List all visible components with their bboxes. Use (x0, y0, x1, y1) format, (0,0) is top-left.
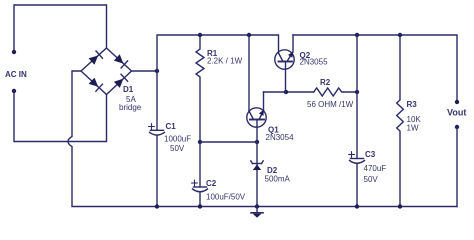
svg-text:C1: C1 (166, 122, 177, 131)
label R1 2.2K/1W (207, 49, 243, 66)
wire: bridge negative (left vertex) to bottom rail, with hop over AC wire (68, 71, 457, 207)
svg-text:bridge: bridge (119, 103, 142, 112)
label C1 1000uF 50V (164, 122, 191, 153)
diode D1a (left-top edge) (89, 56, 99, 65)
resistor R3 (397, 35, 404, 207)
diode D1b (top-right edge) (114, 54, 124, 63)
wire: AC IN bottom lead to bridge bottom vertex (14, 91, 107, 142)
svg-text:2N3055: 2N3055 (300, 58, 329, 67)
node: R3 to ground rail (398, 204, 402, 208)
svg-text:100uF/50V: 100uF/50V (206, 193, 246, 202)
label C2 100uF/50V (206, 179, 246, 202)
svg-text:R3: R3 (407, 100, 418, 109)
wire: Q1 emitter to Q2 base and R2 (264, 91, 314, 93)
svg-text:Vout: Vout (447, 108, 466, 118)
wire: regulated output rail (right segment) from Q2 emitter to Vout corner (293, 35, 457, 102)
wire: Vout bottom lead to ground rail (456, 127, 458, 207)
capacitor C3 (349, 152, 365, 207)
label R3 10K 1W (407, 100, 422, 133)
label R2 56 OHM /1W (307, 78, 354, 109)
label Q2 2N3055 (300, 51, 329, 67)
svg-text:50V: 50V (170, 144, 185, 153)
node: C2 to ground rail (198, 204, 202, 208)
capacitor C2 (192, 142, 208, 207)
node: AC IN bottom terminal (12, 89, 16, 93)
node: Q2 base junction (284, 90, 288, 94)
transistor Q1 (2N3054) (247, 35, 266, 142)
label C3 470uF 50V (364, 150, 387, 184)
node: Vout bottom terminal (455, 125, 459, 129)
resistor R2 (314, 88, 357, 96)
node: R1 / C2 / base wire junction (198, 140, 202, 144)
node: AC IN top terminal (12, 50, 16, 54)
svg-text:AC IN: AC IN (5, 70, 27, 79)
svg-text:2.2K / 1W: 2.2K / 1W (207, 57, 243, 66)
svg-text:C3: C3 (365, 150, 376, 159)
label Q1 2N3054 (266, 126, 295, 143)
node: rail / R1 junction (198, 33, 202, 37)
wire: bridge positive (right vertex) to C1 line (132, 70, 158, 72)
node: Vout top terminal (455, 100, 459, 104)
svg-text:56 OHM /1W: 56 OHM /1W (307, 100, 354, 109)
wire: R1 bottom node to Q1 base / D2 node (200, 141, 257, 143)
wire: C3 top lead from rail through R2 node (356, 35, 358, 159)
zener diode D2 (251, 142, 263, 207)
transistor Q2 (2N3055) (275, 35, 294, 92)
wire: unregulated + rail (left segment) with C1 top lead and Q2 collector lead (157, 35, 279, 130)
svg-text:50V: 50V (364, 175, 379, 184)
bridge rectifier D1 (81, 48, 132, 95)
node: rail / C3 line junction (355, 33, 359, 37)
node: rail / R3 junction (398, 33, 402, 37)
node: rail / Q1 collector junction (247, 33, 251, 37)
label D1 5A bridge (119, 85, 142, 112)
diode D1c (left-bottom edge) (89, 78, 99, 87)
svg-text:2N3054: 2N3054 (266, 133, 295, 142)
svg-text:1W: 1W (407, 124, 419, 133)
svg-text:500mA: 500mA (265, 175, 291, 184)
wire: AC IN top lead to bridge top vertex (14, 5, 107, 52)
svg-text:470uF: 470uF (364, 164, 387, 173)
capacitor C1 (149, 124, 165, 207)
node: C3 to ground rail (355, 204, 359, 208)
node: R2 right to regulated rail line (355, 90, 359, 94)
resistor R1 (196, 35, 204, 142)
diode D1d (bottom-right edge) (114, 79, 124, 88)
node: Q1 base / D2 junction (255, 140, 259, 144)
node: junction bridge+ / C1 (155, 69, 159, 73)
svg-text:D1: D1 (123, 85, 134, 94)
node: D2 to ground rail (255, 204, 259, 208)
svg-text:C2: C2 (206, 179, 217, 188)
label D2 500mA (265, 166, 291, 184)
node: C1 to ground rail (155, 204, 159, 208)
svg-text:1000uF: 1000uF (164, 135, 191, 144)
ground (251, 207, 263, 218)
svg-text:R2: R2 (320, 78, 331, 87)
